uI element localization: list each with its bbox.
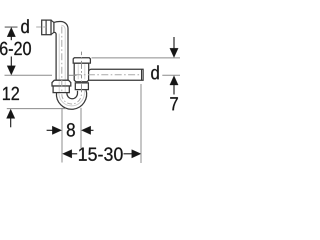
extension line outlet centerline level right	[162, 74, 180, 76]
inlet union nut lower band	[53, 86, 69, 93]
dimension 12 bottom outside arrow	[7, 109, 15, 118]
inlet socket taper top	[51, 20, 54, 22]
extension line pipe end vertical	[140, 84, 142, 163]
inlet nut bore highlights	[59, 81, 65, 92]
dimension 7 top arrow	[173, 37, 175, 50]
trap U-bend bore highlight arc	[59, 90, 84, 106]
inlet socket body	[42, 20, 51, 35]
label d right	[151, 65, 159, 79]
outlet nut body	[74, 63, 89, 82]
label d left leader line	[5, 26, 18, 28]
extension line outlet flange top level	[92, 57, 181, 59]
dimension 8 right arrow	[81, 126, 90, 134]
inlet pipe bore highlight right	[61, 25, 65, 79]
centerline: inlet vertical axis	[61, 27, 63, 92]
trap U-bend outer arc	[56, 90, 86, 110]
centerline: trap bend arc	[62, 94, 82, 104]
extension line outlet centerline level segment 2	[69, 74, 77, 76]
inlet socket flange line	[45, 20, 47, 35]
outlet pipe end inner line	[141, 69, 143, 80]
outlet nut bore highlights	[78, 64, 85, 89]
outlet flange	[73, 58, 90, 63]
centerline: outlet pipe horizontal axis	[75, 74, 142, 76]
outlet horizontal pipe	[89, 69, 144, 80]
dimension 15-30 text	[79, 147, 123, 160]
dimension 12 text	[3, 87, 19, 100]
inlet socket taper bottom	[51, 32, 54, 34]
inlet pipe bore highlight left	[58, 34, 60, 80]
extension line outlet centerline vertical	[80, 108, 82, 148]
trap U-bend inner slot	[67, 91, 78, 99]
dimension 8 left arrow	[47, 129, 53, 131]
dimension 6-20 top arrow	[7, 27, 15, 36]
trap U-bend outer fill	[56, 84, 86, 109]
outlet collar	[75, 83, 88, 90]
inlet union nut upper band	[52, 80, 71, 86]
dimension 8 text	[67, 123, 75, 136]
dimension 15-30 left arrow	[63, 150, 72, 158]
dimension 6-20 text	[0, 42, 31, 55]
extension line trap bottom level	[7, 108, 66, 110]
centerline: outlet vertical axis	[81, 52, 83, 95]
extension line inlet centerline vertical	[61, 108, 63, 163]
centerline: inlet horizontal axis	[36, 26, 46, 28]
extension line outlet centerline level	[5, 74, 53, 76]
label d left	[21, 19, 29, 33]
inlet elbow and vertical pipe	[54, 21, 68, 80]
dimension 7 bottom arrow	[170, 76, 178, 85]
dimension 6-20 bottom arrow	[10, 57, 12, 67]
dimension 15-30 right arrow	[124, 153, 134, 155]
dimension 7 text	[170, 97, 178, 110]
